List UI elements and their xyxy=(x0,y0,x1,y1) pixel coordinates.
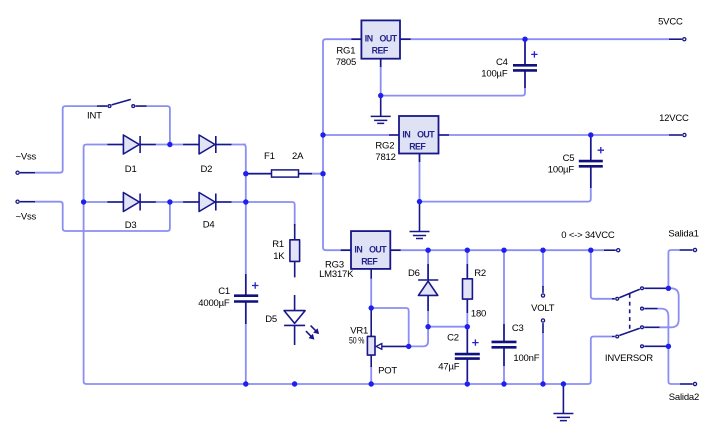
svg-text:D3: D3 xyxy=(125,220,137,231)
svg-text:REF: REF xyxy=(409,141,426,151)
svg-text:180: 180 xyxy=(471,309,486,320)
svg-text:D1: D1 xyxy=(125,164,137,175)
svg-text:F1: F1 xyxy=(264,151,275,162)
svg-text:C5: C5 xyxy=(563,153,575,164)
svg-text:VOLT: VOLT xyxy=(531,303,555,314)
svg-text:12VCC: 12VCC xyxy=(659,113,689,124)
svg-text:Salida2: Salida2 xyxy=(669,392,699,403)
svg-text:~Vss: ~Vss xyxy=(16,212,37,223)
svg-text:100µF: 100µF xyxy=(548,164,575,175)
svg-text:Salida1: Salida1 xyxy=(668,229,698,240)
svg-text:RG2: RG2 xyxy=(375,141,394,152)
svg-text:C1: C1 xyxy=(218,286,230,297)
svg-text:~Vss: ~Vss xyxy=(16,152,37,163)
svg-text:INT: INT xyxy=(87,111,102,122)
svg-text:OUT: OUT xyxy=(417,129,435,139)
svg-text:REF: REF xyxy=(372,46,389,56)
svg-text:D2: D2 xyxy=(201,164,213,175)
svg-text:D4: D4 xyxy=(203,220,215,231)
svg-text:2A: 2A xyxy=(292,151,304,162)
svg-text:OUT: OUT xyxy=(380,34,398,44)
svg-text:IN: IN xyxy=(365,34,373,44)
svg-text:C4: C4 xyxy=(496,57,508,68)
svg-text:R1: R1 xyxy=(272,239,284,250)
svg-text:RG1: RG1 xyxy=(336,46,355,57)
svg-text:POT: POT xyxy=(378,366,397,377)
svg-text:C2: C2 xyxy=(447,333,459,344)
svg-text:50 %: 50 % xyxy=(349,336,365,347)
svg-text:OUT: OUT xyxy=(369,245,387,255)
svg-text:D5: D5 xyxy=(265,314,277,325)
svg-text:INVERSOR: INVERSOR xyxy=(605,353,653,364)
svg-text:5VCC: 5VCC xyxy=(658,17,683,28)
svg-text:7805: 7805 xyxy=(336,57,356,68)
svg-text:D6: D6 xyxy=(408,268,420,279)
svg-text:4000µF: 4000µF xyxy=(198,298,230,309)
svg-text:C3: C3 xyxy=(512,323,524,334)
svg-text:IN: IN xyxy=(354,245,362,255)
svg-text:0 <-> 34VCC: 0 <-> 34VCC xyxy=(561,230,615,241)
svg-text:47µF: 47µF xyxy=(438,362,459,373)
svg-text:7812: 7812 xyxy=(375,152,395,163)
svg-text:100µF: 100µF xyxy=(481,69,508,80)
svg-text:LM317K: LM317K xyxy=(319,269,354,280)
svg-text:IN: IN xyxy=(402,129,410,139)
svg-text:100nF: 100nF xyxy=(513,353,539,364)
svg-text:R2: R2 xyxy=(474,268,486,279)
svg-text:REF: REF xyxy=(361,257,378,267)
svg-text:1K: 1K xyxy=(273,251,285,262)
